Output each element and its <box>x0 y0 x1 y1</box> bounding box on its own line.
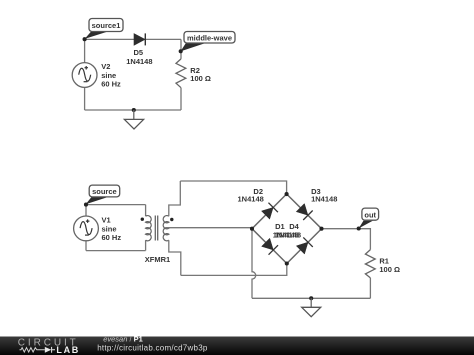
flag out <box>359 208 379 228</box>
svg-text:100 Ω: 100 Ω <box>379 265 400 274</box>
diode D4 (bottom-right edge, points NE) <box>296 237 312 254</box>
label D1 D4 with overlapped values <box>273 222 301 239</box>
wire left vertex down with hop over bottom rail <box>252 229 256 299</box>
node dot bridge right <box>319 227 323 231</box>
flag middle-wave <box>181 32 236 52</box>
logo diode glyph <box>45 347 52 353</box>
flag source1 <box>85 19 123 39</box>
wire secondary top lead with jog <box>169 181 181 216</box>
footer bar <box>0 337 474 355</box>
secondary coil <box>163 216 169 241</box>
label D3 1N4148 <box>311 187 337 204</box>
diode D1 (bottom-left edge, points SE) <box>262 238 278 254</box>
core lines <box>155 216 157 241</box>
svg-text:sine: sine <box>101 71 116 80</box>
label R1 100 Ohm <box>379 256 400 274</box>
transformer XFMR1 <box>141 216 174 241</box>
node dot ground bottom <box>309 296 313 300</box>
svg-text:sine: sine <box>102 224 117 233</box>
node dot bridge bottom <box>285 261 289 265</box>
svg-text:XFMR1: XFMR1 <box>145 255 170 264</box>
label D5 1N4148 <box>126 48 152 66</box>
svg-text:1N4148: 1N4148 <box>275 231 301 240</box>
svg-text:60 Hz: 60 Hz <box>101 80 121 89</box>
resistor R1 <box>365 250 375 278</box>
svg-text:evesan / P1: evesan / P1 <box>103 335 143 344</box>
ground (top circuit) <box>124 110 143 129</box>
voltage source V1 <box>74 216 99 241</box>
wire R1 bottom <box>369 278 371 298</box>
svg-text:http://circuitlab.com/cd7wb3p: http://circuitlab.com/cd7wb3p <box>97 343 208 352</box>
svg-text:V2: V2 <box>101 62 110 71</box>
bridge diamond edges <box>252 194 322 264</box>
svg-text:V1: V1 <box>102 215 111 224</box>
svg-text:out: out <box>364 211 376 220</box>
node dot bridge top <box>285 192 289 196</box>
node dot top-left <box>83 37 87 41</box>
node dot bridge left <box>250 227 254 231</box>
wire bottom rail <box>85 109 181 111</box>
svg-text:1N4148: 1N4148 <box>126 57 152 66</box>
wire top (V2 top node to right corner) <box>85 38 181 40</box>
logo resistor glyph <box>20 348 45 352</box>
wire primary bottom lead <box>145 240 147 250</box>
resistor R2 <box>176 59 186 88</box>
diode D5 <box>134 33 145 45</box>
wire secondary bottom lead with jog <box>169 240 181 275</box>
wire bottom rail (V1 to transformer) <box>86 250 146 252</box>
wire right (down through R2) <box>180 39 182 110</box>
wire ground rail <box>252 297 370 299</box>
wire left (top corner down to V2) <box>84 39 86 62</box>
node dot middle-wave <box>179 49 183 53</box>
wire right vertex to R1 top <box>322 229 371 250</box>
node dot ground top <box>132 108 136 112</box>
wire left (down to V1) <box>85 205 87 216</box>
wire top rail (V1 to transformer) <box>86 204 146 206</box>
wire V2 bottom to bottom rail <box>84 87 86 110</box>
phase dot primary <box>141 218 144 221</box>
wire secondary mid to bridge left vertex <box>165 227 252 229</box>
wire primary top lead <box>145 205 147 217</box>
svg-text:1N4148: 1N4148 <box>238 195 264 204</box>
label R2 100 Ohm <box>190 66 211 83</box>
wire AC top rail to bridge top <box>180 181 286 194</box>
svg-text:D5: D5 <box>134 48 144 57</box>
node dot out <box>357 226 361 230</box>
phase dot secondary <box>170 218 173 221</box>
voltage source V2 <box>72 63 97 88</box>
flag source <box>86 185 120 204</box>
svg-text:60 Hz: 60 Hz <box>102 233 122 242</box>
primary coil <box>146 216 152 241</box>
label D2 1N4148 <box>238 187 264 204</box>
label V1 sine 60 Hz <box>102 215 122 242</box>
svg-text:source1: source1 <box>92 21 121 30</box>
diode D3 (top-right edge, points SE) <box>296 204 312 220</box>
ground (bottom circuit) <box>302 298 321 316</box>
svg-text:1N4148: 1N4148 <box>311 195 337 204</box>
svg-text:middle-wave: middle-wave <box>187 33 232 42</box>
label V2 sine 60 Hz <box>101 62 121 89</box>
svg-text:100 Ω: 100 Ω <box>190 74 211 83</box>
diode D2 (top-left edge, points NE) <box>261 203 277 219</box>
node dot source <box>84 203 88 207</box>
svg-text:LAB: LAB <box>56 345 80 355</box>
svg-text:source: source <box>92 187 117 196</box>
wire V1 bottom <box>85 241 87 251</box>
wire AC bottom rail to bridge bottom <box>181 264 287 276</box>
